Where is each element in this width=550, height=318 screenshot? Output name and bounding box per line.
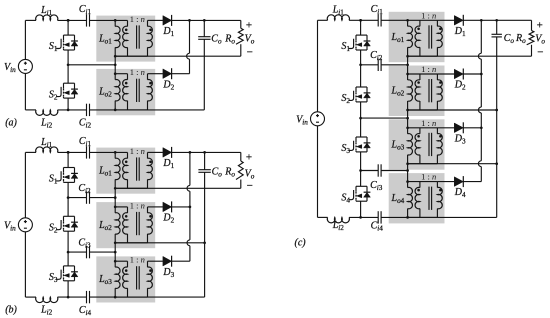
svg-text:(c): (c) bbox=[295, 238, 307, 249]
svg-text:1 : n: 1 : n bbox=[130, 200, 145, 210]
svg-text:1 : n: 1 : n bbox=[421, 172, 436, 182]
svg-text:−: − bbox=[247, 180, 253, 192]
svg-text:1 : n: 1 : n bbox=[130, 146, 145, 156]
svg-text:−: − bbox=[537, 47, 543, 59]
svg-text:(a): (a) bbox=[5, 117, 17, 128]
svg-text:+: + bbox=[537, 19, 543, 31]
svg-text:1 : n: 1 : n bbox=[130, 255, 145, 265]
svg-text:1 : n: 1 : n bbox=[421, 64, 436, 74]
svg-text:1 : n: 1 : n bbox=[130, 67, 145, 77]
svg-text:1 : n: 1 : n bbox=[421, 10, 436, 20]
svg-text:1 : n: 1 : n bbox=[130, 14, 145, 24]
svg-text:+: + bbox=[246, 19, 252, 31]
svg-text:−: − bbox=[247, 46, 253, 58]
svg-text:(b): (b) bbox=[5, 305, 17, 316]
svg-text:1 : n: 1 : n bbox=[421, 118, 436, 128]
svg-text:+: + bbox=[246, 151, 252, 163]
